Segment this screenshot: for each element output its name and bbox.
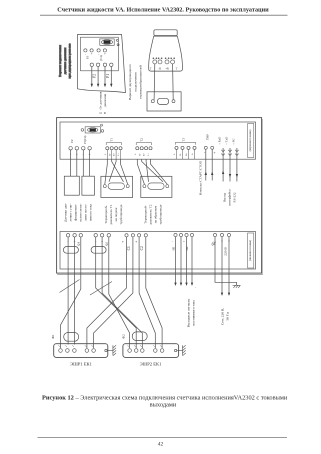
wire C1a to ESHR1	[87, 269, 127, 348]
220V arrows	[221, 293, 230, 296]
ground ESHR2	[177, 345, 186, 356]
svg-text:+: +	[183, 240, 185, 244]
svg-text:Ф1: Ф1	[51, 334, 55, 339]
svg-text:разователь Т2: разователь Т2	[149, 204, 153, 224]
wire C2a to ESHR2	[139, 269, 155, 348]
svg-text:датчиков давления: датчиков давления	[63, 47, 67, 74]
pin row 1 (P3 / C4)	[84, 49, 107, 52]
svg-text:Q2: Q2	[104, 242, 108, 246]
connector ESHR2	[123, 344, 179, 358]
RTD plug pins	[153, 58, 175, 64]
svg-text:+: +	[135, 240, 137, 244]
ground symbol mains	[233, 285, 241, 288]
wire from pin row2 a	[91, 67, 93, 85]
svg-text:ЭШР2 ЕК1: ЭШР2 ЕК1	[140, 362, 163, 367]
svg-text:Т1: Т1	[110, 138, 114, 142]
svg-text:+: +	[214, 151, 216, 155]
bracket T2	[136, 143, 151, 145]
pressure sensor box 1	[64, 176, 79, 195]
main box right shadow line	[262, 119, 264, 275]
svg-text:Т: Т	[150, 68, 152, 71]
label: from pressure sensors	[98, 91, 107, 109]
svg-text:Рисунок 12 – Электрическая схе: Рисунок 12 – Электрическая схема подключ…	[42, 395, 288, 402]
svg-text:+: +	[104, 52, 106, 56]
wire Q2a to ESHR2	[96, 269, 137, 348]
svg-text:50 Гц: 50 Гц	[226, 312, 230, 320]
label: variant two-wire RTD connection	[128, 64, 142, 100]
wire I2+	[186, 237, 188, 283]
wire C1b to ESHR1	[94, 269, 133, 348]
label RTD T1	[104, 204, 123, 224]
RTD socket screws	[151, 100, 154, 103]
PE mark	[211, 241, 215, 246]
label DC output signals	[186, 298, 195, 327]
svg-text:Р3: Р3	[86, 55, 90, 59]
svg-text:янного тока: янного тока	[89, 204, 93, 221]
svg-text:1-: 1-	[173, 153, 176, 155]
svg-text:трубопроводе: трубопроводе	[159, 204, 163, 224]
svg-text:трубопровода: трубопровода	[119, 204, 123, 224]
svg-text:на подаче: на подаче	[114, 207, 118, 221]
svg-text:R+: R+	[113, 152, 116, 156]
header rule	[40, 14, 288, 16]
svg-text:Т3: Т3	[182, 137, 186, 141]
RTD T2 D-sub	[148, 183, 164, 189]
svg-text:ГМР: ГМР	[205, 134, 209, 141]
RTD T1 D-sub	[108, 183, 124, 189]
svg-text:подключения: подключения	[133, 72, 137, 91]
pin row 2	[90, 63, 113, 66]
svg-text:Ф2: Ф2	[122, 334, 126, 339]
svg-text:220 В: 220 В	[223, 247, 227, 256]
wire Q1c to pin1	[61, 269, 81, 348]
wire Q1a down	[67, 269, 69, 345]
slash mark Q1	[60, 280, 80, 293]
wires T2 to RTD2 crossing	[137, 159, 144, 184]
connector XS3 inner plate	[81, 37, 119, 71]
svg-text:Датчики дав-: Датчики дав-	[64, 203, 68, 222]
svg-text:R+: R+	[143, 152, 146, 156]
terminals P2 P1	[69, 147, 91, 150]
svg-text:И1: И1	[171, 246, 175, 250]
svg-text:Импульс СТАРТ/СТОП: Импульс СТАРТ/СТОП	[198, 160, 202, 195]
main device outer box	[57, 118, 262, 274]
wire from pin row2 c	[104, 67, 106, 85]
svg-text:интерфейса: интерфейса	[228, 189, 232, 206]
wire GMR2	[211, 149, 213, 180]
RTD T2 box	[141, 176, 172, 197]
svg-text:при двухрядном разъеме: при двухрядном разъеме	[68, 43, 72, 79]
wire GMR1	[205, 149, 207, 180]
footer rule	[38, 437, 288, 439]
I arrows	[174, 283, 193, 286]
svg-text:1+: 1+	[191, 152, 194, 155]
wire N	[228, 237, 230, 293]
RTD plug cap	[154, 30, 177, 36]
svg-text:Q1: Q1	[76, 242, 80, 246]
keying plug on XS3	[100, 39, 119, 46]
T3 pin stubs	[177, 150, 195, 160]
label mains 220V 50Hz	[220, 308, 229, 325]
RTD T2 screws	[143, 185, 146, 188]
connector ESHR1	[54, 344, 108, 358]
arrowheads to pressure sensors	[91, 84, 113, 88]
svg-text:разователь Т1: разователь Т1	[109, 204, 113, 224]
wire TxD	[229, 148, 231, 182]
ESHR2 pins	[128, 349, 177, 353]
terminals T2	[136, 147, 152, 150]
terminals T1	[106, 147, 122, 150]
ground ESHR1	[107, 345, 116, 356]
upper strip label box	[248, 124, 254, 158]
wire Q1b down	[74, 269, 76, 345]
wire I1+	[175, 237, 177, 283]
filter oval F1	[64, 333, 79, 342]
wire L	[221, 237, 223, 293]
svg-text:R-: R-	[108, 153, 111, 156]
svg-text:ЭШР1 ЕК1: ЭШР1 ЕК1	[70, 362, 93, 367]
terminals I1 I2	[174, 233, 194, 236]
svg-text:Т2: Т2	[140, 138, 144, 142]
svg-text:С1: С1	[127, 246, 131, 250]
svg-text:Термопреоб-: Термопреоб-	[144, 205, 148, 223]
RS232 chevrons	[221, 150, 238, 156]
svg-text:ления с уни-: ления с уни-	[69, 204, 73, 222]
terminals 220V	[213, 233, 230, 236]
wire PE	[215, 237, 237, 286]
label RS-232 output	[223, 189, 237, 206]
svg-text:→RxD: →RxD	[218, 136, 222, 146]
pressure sensor box 2	[82, 176, 95, 195]
ESHR1 pins	[59, 349, 108, 353]
connector XS3 outer box (torn outline)	[78, 35, 126, 93]
svg-text:термопреобразователей: термопреобразователей	[139, 65, 143, 99]
svg-text:1-: 1-	[104, 153, 107, 155]
filter oval F2	[132, 332, 147, 341]
wires Q2 in strip	[95, 237, 97, 269]
svg-text:Р1: Р1	[106, 74, 110, 78]
svg-text:-R: -R	[158, 68, 161, 71]
terminals GMR	[204, 146, 207, 149]
terminals T3	[175, 146, 196, 149]
wire SG	[236, 148, 238, 182]
svg-text:R+: R+	[185, 152, 188, 156]
wires T1 to RTD1 crossing	[105, 159, 108, 184]
RTD pin labels	[150, 68, 178, 71]
wire RTD right	[172, 64, 175, 100]
wires C group in strip	[126, 237, 128, 269]
wire from pin row2 b	[97, 67, 99, 85]
label pressure sensors	[64, 203, 93, 222]
RS232 arrows	[222, 171, 238, 178]
lower terminal strip	[60, 232, 256, 270]
wire RxD	[222, 148, 224, 182]
slash mark Q2	[90, 282, 112, 296]
ESHR2 pin ticks	[127, 345, 161, 347]
terminals Q1	[66, 234, 82, 237]
svg-text:←TxD: ←TxD	[225, 136, 229, 145]
fuse oval Q1	[63, 247, 78, 254]
terminals Q2	[94, 234, 111, 237]
RTD plug body	[149, 36, 183, 71]
svg-text:(С4): (С4)	[99, 55, 103, 60]
svg-text:ными сигна-: ными сигна-	[79, 204, 83, 222]
svg-text:42: 42	[158, 442, 164, 448]
svg-text:Т: Т	[176, 68, 178, 71]
svg-text:+R: +R	[166, 68, 170, 71]
wires Q1 in strip	[67, 237, 69, 269]
wire P1a to sensor box2	[82, 150, 84, 176]
svg-text:→SG: →SG	[231, 138, 235, 146]
RTD T1 box	[101, 176, 133, 197]
RS-232 service connector symbol	[81, 124, 104, 133]
svg-text:на обратном: на обратном	[154, 205, 158, 223]
svg-text:-: -	[85, 52, 86, 56]
wire P2a to sensor box1	[70, 150, 72, 176]
svg-text:С2: С2	[140, 246, 144, 250]
svg-text:-: -	[172, 240, 173, 244]
svg-text:R-: R-	[138, 153, 141, 156]
svg-text:1+: 1+	[147, 153, 150, 156]
T1 pin stubs	[107, 150, 120, 159]
bracket T1	[106, 143, 121, 145]
svg-text:постоянного тока: постоянного тока	[192, 300, 196, 326]
wire I2-	[191, 237, 193, 283]
label RTD T2	[144, 204, 163, 224]
svg-text:Вариант двухпроводного: Вариант двухпроводного	[128, 64, 132, 100]
terminals C1 C2	[125, 234, 147, 237]
ESHR1 pin ticks	[58, 345, 93, 347]
upper terminal strip	[60, 122, 256, 159]
RTD socket D-sub	[157, 98, 168, 104]
wire P2b	[76, 150, 78, 176]
svg-text:фицирован-: фицирован-	[74, 204, 78, 221]
svg-text:(нижняя планка): (нижняя планка)	[248, 240, 252, 261]
svg-text:Р2: Р2	[93, 74, 97, 78]
wire C2b to ESHR2	[146, 269, 162, 348]
svg-text:выходами: выходами	[150, 402, 177, 409]
svg-text:Термопреоб-: Термопреоб-	[104, 205, 108, 223]
main box bottom shadow line	[57, 274, 262, 276]
svg-text:-: -	[195, 285, 196, 289]
wire I1-	[180, 237, 182, 283]
GMR up arrows	[205, 172, 214, 176]
svg-text:Счетчики жидкости VA. Исполнен: Счетчики жидкости VA. Исполнение VA2302.…	[57, 7, 269, 14]
wire Q2c to ESHR2 pin1	[109, 269, 130, 348]
lower strip label box	[248, 233, 254, 268]
svg-text:От датчиков: От датчиков	[98, 91, 102, 109]
svg-text:Р2: Р2	[70, 139, 74, 143]
svg-text:Вариант подключения: Вариант подключения	[58, 45, 62, 77]
RTD socket box	[147, 92, 181, 111]
wire Q2b to ESHR2	[102, 269, 142, 348]
wire P1b	[89, 150, 91, 176]
svg-text:Выход: Выход	[223, 193, 227, 202]
svg-text:1+: 1+	[117, 153, 120, 156]
svg-text:давления: давления	[103, 93, 107, 107]
svg-text:+: +	[122, 240, 124, 244]
svg-text:лами посто-: лами посто-	[84, 204, 88, 221]
fuse oval Q2	[91, 247, 106, 254]
svg-text:1-: 1-	[134, 153, 137, 155]
svg-text:(верхняя планка): (верхняя планка)	[248, 130, 252, 152]
svg-text:Выходные сигналы: Выходные сигналы	[186, 298, 190, 327]
RS232 labels	[218, 136, 236, 146]
svg-text:+: +	[91, 52, 93, 56]
svg-text:RS-232: RS-232	[233, 192, 237, 202]
label: variant pressure sensors two-row connector	[58, 43, 71, 79]
RTD T1 screws	[103, 185, 106, 188]
bracket T3	[175, 142, 195, 144]
svg-text:Р1(С4): Р1(С4)	[83, 136, 87, 144]
wire from pin row2 d	[110, 67, 112, 85]
svg-text:R-: R-	[179, 153, 182, 156]
wire RTD left	[153, 64, 156, 100]
svg-text:О R: О R	[100, 111, 106, 115]
svg-text:И2: И2	[185, 246, 189, 250]
